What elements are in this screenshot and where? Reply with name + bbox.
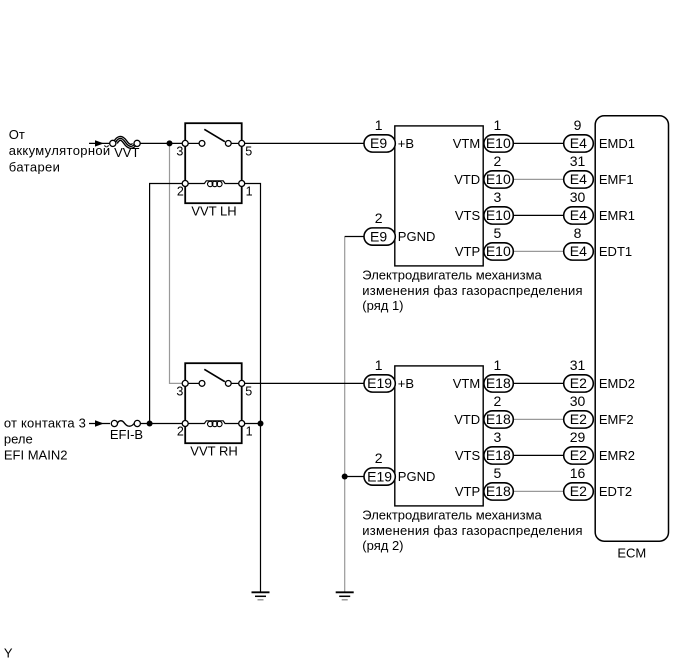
svg-text:VVT RH: VVT RH <box>190 444 237 459</box>
svg-text:EMD2: EMD2 <box>599 376 635 391</box>
svg-text:2: 2 <box>494 393 502 409</box>
svg-text:VTS: VTS <box>455 448 481 463</box>
svg-text:5: 5 <box>245 144 252 158</box>
feed arrow <box>95 140 104 146</box>
svg-text:5: 5 <box>245 384 252 398</box>
svg-text:E2: E2 <box>570 411 587 427</box>
wire: fuse VVT to relay VVT LH pin 3 <box>140 142 185 144</box>
svg-text:+B: +B <box>398 376 414 391</box>
wire: VTM E10 to E4 <box>513 142 563 144</box>
node: EFI MAIN2 relay feed label <box>4 415 86 462</box>
wire: PGND common vertical to ground (gray) <box>344 237 346 593</box>
wire: relay pins 1 common down to ground (LH pin1, RH pin1) <box>242 184 261 593</box>
svg-text:EMF2: EMF2 <box>599 412 634 427</box>
junction after fuse VVT <box>167 140 173 146</box>
connector E2 pin 31 (EMD2) <box>564 357 594 392</box>
svg-text:Электродвигатель механизма: Электродвигатель механизма <box>362 508 542 523</box>
ECM box <box>595 116 668 561</box>
svg-text:EFI MAIN2: EFI MAIN2 <box>4 448 68 463</box>
svg-text:5: 5 <box>494 225 502 241</box>
svg-text:реле: реле <box>4 431 33 446</box>
svg-text:PGND: PGND <box>398 229 436 244</box>
svg-text:29: 29 <box>570 429 586 445</box>
wire: E9 PGND horizontal <box>345 236 365 238</box>
camshaft timing motor unit (bank 2) box <box>395 366 483 506</box>
svg-text:31: 31 <box>570 153 586 169</box>
label: motor bank 2 description <box>362 508 583 554</box>
connector E4 pin 9 (EMD1) <box>564 117 594 152</box>
svg-text:3: 3 <box>176 384 183 398</box>
svg-text:E19: E19 <box>367 375 392 391</box>
wire: VTS E10 to E4 <box>513 214 563 216</box>
svg-text:2: 2 <box>177 185 184 199</box>
connector E18 pin 2 (VTD) <box>484 393 513 428</box>
connector E9 pin 1 (+B) <box>364 117 395 152</box>
svg-text:EDT1: EDT1 <box>599 244 632 259</box>
svg-text:изменения фаз газораспределени: изменения фаз газораспределения <box>362 523 583 538</box>
connector E10 pin 3 (VTS) <box>484 189 513 224</box>
svg-text:2: 2 <box>375 450 383 466</box>
svg-text:EMD1: EMD1 <box>599 136 635 151</box>
svg-text:E4: E4 <box>570 171 587 187</box>
svg-text:1: 1 <box>375 117 383 133</box>
terminals <box>182 140 188 146</box>
svg-text:EMR2: EMR2 <box>599 448 635 463</box>
fusible link VVT <box>110 138 140 159</box>
svg-text:VTM: VTM <box>453 136 480 151</box>
coil <box>185 421 242 424</box>
svg-text:1: 1 <box>246 185 253 199</box>
wire: VTD E18 to E2 (gray) <box>513 418 563 420</box>
label: motor bank 1 description <box>362 268 583 314</box>
connector E10 pin 2 (VTD) <box>484 153 513 188</box>
connector E4 pin 31 (EMF1) <box>564 153 594 188</box>
wire: battery feed into fuse VVT <box>89 142 110 144</box>
connector E19 pin 1 (+B) <box>364 357 395 392</box>
connector E4 pin 8 (EDT1) <box>564 225 594 260</box>
svg-text:батареи: батареи <box>9 159 61 174</box>
svg-text:EDT2: EDT2 <box>599 484 632 499</box>
svg-text:VTM: VTM <box>453 376 480 391</box>
svg-text:E4: E4 <box>570 207 587 223</box>
svg-text:E9: E9 <box>370 135 387 151</box>
wire: EFI-B node up to relay VVT LH pin 2 <box>150 184 186 424</box>
svg-text:EFI-B: EFI-B <box>110 427 143 442</box>
svg-text:8: 8 <box>574 225 582 241</box>
switch blade <box>204 369 225 381</box>
wire: EFI MAIN2 feed into fuse EFI-B <box>89 423 110 425</box>
svg-text:изменения фаз газораспределени: изменения фаз газораспределения <box>362 283 583 298</box>
svg-text:30: 30 <box>570 189 586 205</box>
wire: node after fuse VVT down to relay VVT RH pin 3 (gray) <box>170 143 186 383</box>
svg-text:VTD: VTD <box>454 412 480 427</box>
connector E9 pin 2 (PGND) <box>364 210 395 245</box>
wire: VTP E18 to E2 (gray) <box>513 490 563 492</box>
junction after fuse EFI-B <box>147 421 153 427</box>
switch blade <box>204 129 225 141</box>
svg-text:VTS: VTS <box>455 208 481 223</box>
svg-text:30: 30 <box>570 393 586 409</box>
svg-text:ECM: ECM <box>617 545 646 560</box>
svg-text:E18: E18 <box>486 483 511 499</box>
feed arrow 2 <box>95 420 104 426</box>
svg-text:Y: Y <box>4 646 13 660</box>
svg-text:5: 5 <box>494 465 502 481</box>
svg-text:2: 2 <box>494 153 502 169</box>
svg-text:E9: E9 <box>370 228 387 244</box>
wire: relay VVT LH pin 5 to E9 +B <box>242 142 365 144</box>
switch contact wires <box>185 142 199 144</box>
connector E2 pin 16 (EDT2) <box>564 465 594 500</box>
svg-text:E4: E4 <box>570 135 587 151</box>
connector E18 pin 3 (VTS) <box>484 429 513 464</box>
svg-text:EMR1: EMR1 <box>599 208 635 223</box>
svg-text:E10: E10 <box>486 243 511 259</box>
svg-text:E10: E10 <box>486 135 511 151</box>
svg-text:31: 31 <box>570 357 586 373</box>
switch contacts <box>199 381 205 387</box>
connector E10 pin 5 (VTP) <box>484 225 513 260</box>
relay VVT RH <box>176 363 252 458</box>
connector E2 pin 29 (EMR2) <box>564 429 594 464</box>
svg-text:E18: E18 <box>486 447 511 463</box>
svg-text:VVT LH: VVT LH <box>191 204 236 219</box>
svg-text:E18: E18 <box>486 411 511 427</box>
ground (relay coils) <box>252 592 270 600</box>
svg-text:VTP: VTP <box>455 244 480 259</box>
svg-text:E10: E10 <box>486 207 511 223</box>
svg-text:+B: +B <box>398 136 414 151</box>
coil <box>185 181 242 184</box>
svg-text:2: 2 <box>177 425 184 439</box>
svg-text:PGND: PGND <box>398 469 436 484</box>
connector E18 pin 1 (VTM) <box>484 357 513 392</box>
svg-text:E19: E19 <box>367 468 392 484</box>
svg-text:От: От <box>9 127 25 142</box>
connector E19 pin 2 (PGND) <box>364 450 395 485</box>
wire: relay VVT RH pin 5 to E19 +B <box>242 382 365 384</box>
svg-text:1: 1 <box>494 357 502 373</box>
switch contacts <box>199 141 205 147</box>
svg-text:EMF1: EMF1 <box>599 172 634 187</box>
svg-text:VTP: VTP <box>455 484 480 499</box>
wire: VTS E18 to E2 <box>513 454 563 456</box>
ground (PGND) <box>336 592 354 600</box>
svg-text:E18: E18 <box>486 375 511 391</box>
svg-text:16: 16 <box>570 465 586 481</box>
fuse EFI-B <box>110 420 143 442</box>
connector E10 pin 1 (VTM) <box>484 117 513 152</box>
wire: VTM E18 to E2 <box>513 382 563 384</box>
svg-text:2: 2 <box>375 210 383 226</box>
svg-text:E4: E4 <box>570 243 587 259</box>
wire: E19 PGND horizontal <box>345 476 365 478</box>
svg-text:от контакта 3: от контакта 3 <box>4 415 86 430</box>
connector E4 pin 30 (EMR1) <box>564 189 594 224</box>
svg-text:3: 3 <box>494 189 502 205</box>
connector E18 pin 5 (VTP) <box>484 465 513 500</box>
camshaft timing motor unit (bank 1) box <box>395 126 483 266</box>
svg-text:Электродвигатель механизма: Электродвигатель механизма <box>362 268 542 283</box>
svg-text:E2: E2 <box>570 447 587 463</box>
svg-text:VVT: VVT <box>114 145 139 160</box>
svg-text:(ряд 2): (ряд 2) <box>362 538 403 553</box>
svg-text:E2: E2 <box>570 483 587 499</box>
junction at RH pin1 / ground line <box>258 421 264 427</box>
relay VVT LH <box>176 123 252 218</box>
svg-text:1: 1 <box>246 425 253 439</box>
junction at E19 PGND <box>342 474 348 480</box>
wire: relay VVT RH pin 1 to ground line <box>242 423 261 425</box>
node: battery feed label <box>9 127 111 174</box>
terminals <box>182 380 188 386</box>
connector E2 pin 30 (EMF2) <box>564 393 594 428</box>
wire: fuse EFI-B to relay VVT RH pin 2 <box>140 423 185 425</box>
svg-text:9: 9 <box>574 117 582 133</box>
svg-text:(ряд 1): (ряд 1) <box>362 298 403 313</box>
wire: VTD E10 to E4 (gray) <box>513 178 563 180</box>
svg-text:E10: E10 <box>486 171 511 187</box>
svg-text:3: 3 <box>176 144 183 158</box>
svg-text:3: 3 <box>494 429 502 445</box>
wire: VTP E10 to E4 (gray) <box>513 250 563 252</box>
svg-text:1: 1 <box>494 117 502 133</box>
svg-text:VTD: VTD <box>454 172 480 187</box>
svg-text:E2: E2 <box>570 375 587 391</box>
pin labels <box>176 144 252 198</box>
svg-text:1: 1 <box>375 357 383 373</box>
